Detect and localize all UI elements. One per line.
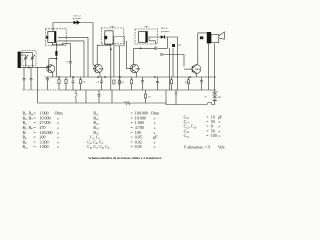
- svg-text:=: =: [206, 133, 209, 138]
- wire v112: [111, 90, 113, 103]
- capacitor C11: [156, 77, 159, 90]
- svg-text:germanio: germanio: [161, 30, 171, 33]
- wire MF1 bottom lead: [53, 42, 65, 44]
- wire TR4 base: [184, 68, 190, 70]
- wire TR1 emitter: [51, 72, 54, 77]
- output transformer T1: [198, 33, 207, 46]
- svg-text:S1: S1: [205, 96, 207, 98]
- switch S1: [75, 90, 78, 103]
- wire OT secondary down: [208, 43, 214, 91]
- trimmer C MF1: [46, 36, 48, 39]
- wire TR3 emitter down: [135, 72, 138, 77]
- coil MF2 secondary box: [114, 37, 125, 46]
- wire MF1 secondary bottom: [58, 40, 85, 42]
- wire TR2 collector up: [97, 45, 111, 65]
- svg-text:TR1: TR1: [46, 65, 51, 68]
- resistor R10: [131, 77, 133, 90]
- svg-text:TR4: TR4: [195, 68, 200, 71]
- resistor R14 zigzag: [124, 102, 130, 105]
- wire right drop to TR2 base: [93, 23, 96, 67]
- svg-text:TR2: TR2: [99, 67, 104, 70]
- svg-text:germanio: germanio: [73, 17, 83, 20]
- svg-text:1.800: 1.800: [40, 144, 49, 149]
- jack terminal: [160, 53, 162, 55]
- capacitor C13: [200, 77, 203, 90]
- coil MF3 primary: [139, 32, 148, 43]
- svg-text:»: »: [154, 144, 156, 149]
- svg-text:TR3: TR3: [135, 67, 140, 70]
- transformer MF1 dashed box: [45, 29, 66, 46]
- wire v86: [85, 90, 87, 103]
- label diodo al germanio (top): [73, 16, 83, 21]
- wire TR4 emitter down: [195, 72, 198, 77]
- resistor R8 w label: [118, 79, 120, 81]
- capacitor C7: [72, 77, 75, 90]
- transistor TR4: [190, 65, 201, 74]
- capacitor C2 blob on x56.3: [55, 41, 57, 77]
- wire antenna top: [21, 52, 33, 55]
- resistor R6: [65, 77, 67, 90]
- transistor TR2: [93, 64, 104, 73]
- svg-text:Ohm: Ohm: [55, 111, 64, 116]
- capacitor C3: [69, 43, 72, 77]
- wire bottom rail: [38, 103, 216, 105]
- transistor TR1: [46, 65, 55, 73]
- transformer MF3 dashed box: [135, 29, 157, 44]
- wire left drop into MF1: [52, 23, 54, 32]
- node dot TR1 collector: [55, 58, 57, 60]
- svg-text:+: +: [217, 91, 219, 94]
- wire TR2 emitter down: [98, 72, 101, 77]
- wire volume verticals: [169, 48, 177, 90]
- diode DG2 detector: [157, 36, 177, 38]
- tuning gang dashed box: [22, 51, 36, 66]
- wire TR4 collector up: [196, 46, 198, 66]
- resistor R11: [171, 77, 173, 90]
- wire main tune bus: [19, 66, 46, 68]
- svg-text:100: 100: [211, 133, 217, 138]
- transistor TR3: [130, 64, 141, 73]
- svg-text:C9: C9: [97, 82, 100, 84]
- wire main rail y77: [45, 76, 217, 78]
- battery B1: [213, 91, 217, 104]
- ground dashed rail: [23, 89, 61, 91]
- terminal circle bottom: [175, 93, 177, 95]
- variable capacitor C1b: [30, 55, 34, 67]
- wire battery drop: [37, 90, 39, 103]
- svg-text:MF2: MF2: [145, 26, 150, 28]
- wire ground rail solid: [60, 89, 216, 91]
- svg-text:=: =: [34, 144, 37, 149]
- switch S1 jog: [207, 103, 212, 105]
- svg-text:C6: C6: [148, 97, 151, 99]
- wire v166: [165, 90, 167, 103]
- diode DG1: [74, 20, 81, 24]
- wire MF3 secondary leads: [149, 37, 157, 44]
- svg-text:R4: R4: [82, 81, 85, 83]
- svg-text:V alimentaz. = 9: V alimentaz. = 9: [184, 145, 211, 150]
- coupling cap C8: [134, 47, 168, 50]
- resistor R4 w label: [80, 77, 82, 90]
- svg-text:R9: R9: [178, 45, 182, 47]
- speaker: [211, 34, 219, 42]
- coil L1 primary MF1: [48, 32, 56, 43]
- antenna ferrite rod L0: [18, 52, 21, 68]
- svg-text:»: »: [57, 144, 59, 149]
- capacitor C9 w label: [100, 77, 103, 90]
- wire jack to TR4 base: [163, 55, 184, 67]
- resistor R5: [58, 77, 60, 90]
- capacitor C10: [141, 77, 144, 90]
- coil MF2 primary: [105, 31, 113, 45]
- variable capacitor C1a: [24, 55, 28, 67]
- capacitor C14: [98, 90, 101, 103]
- label DG al germanio: [161, 28, 171, 33]
- wire TR3 base: [127, 41, 130, 69]
- capacitor C6: [46, 77, 49, 90]
- resistor R12 w label: [145, 90, 147, 103]
- wire v37: [37, 67, 39, 90]
- wire TR1 collector: [49, 59, 57, 67]
- svg-text:0,05: 0,05: [135, 144, 142, 150]
- transformer MF2 dashed box: [101, 28, 124, 44]
- svg-text:pila: pila: [218, 96, 221, 98]
- wire vert x88: [87, 37, 89, 77]
- svg-text:C6, C7, C8, C9: C6, C7, C8, C9: [87, 144, 110, 150]
- svg-text:»: »: [218, 133, 220, 138]
- wire vert x84: [83, 41, 85, 77]
- resistor R13 w label: [188, 77, 190, 90]
- wire MF1 secondary top: [58, 36, 88, 38]
- capacitor C5: [30, 67, 33, 90]
- table of component values: [23, 111, 226, 151]
- wire TR3 collector up: [133, 48, 135, 65]
- capacitor C4 left: [23, 67, 26, 90]
- svg-text:Schema elettrico di ricevitore: Schema elettrico di ricevitore reflex a …: [88, 156, 161, 160]
- svg-text:R8: R8: [121, 82, 124, 84]
- potentiometer R volume box: [168, 37, 178, 48]
- resistor R7: [113, 80, 115, 84]
- wire coupling: [62, 42, 71, 44]
- wire top AGC line: [53, 22, 93, 24]
- wire MF2 verticals down: [110, 44, 112, 90]
- svg-text:=: =: [131, 144, 134, 149]
- capacitor C15 on collector: [200, 36, 203, 39]
- svg-text:Volt: Volt: [218, 145, 225, 150]
